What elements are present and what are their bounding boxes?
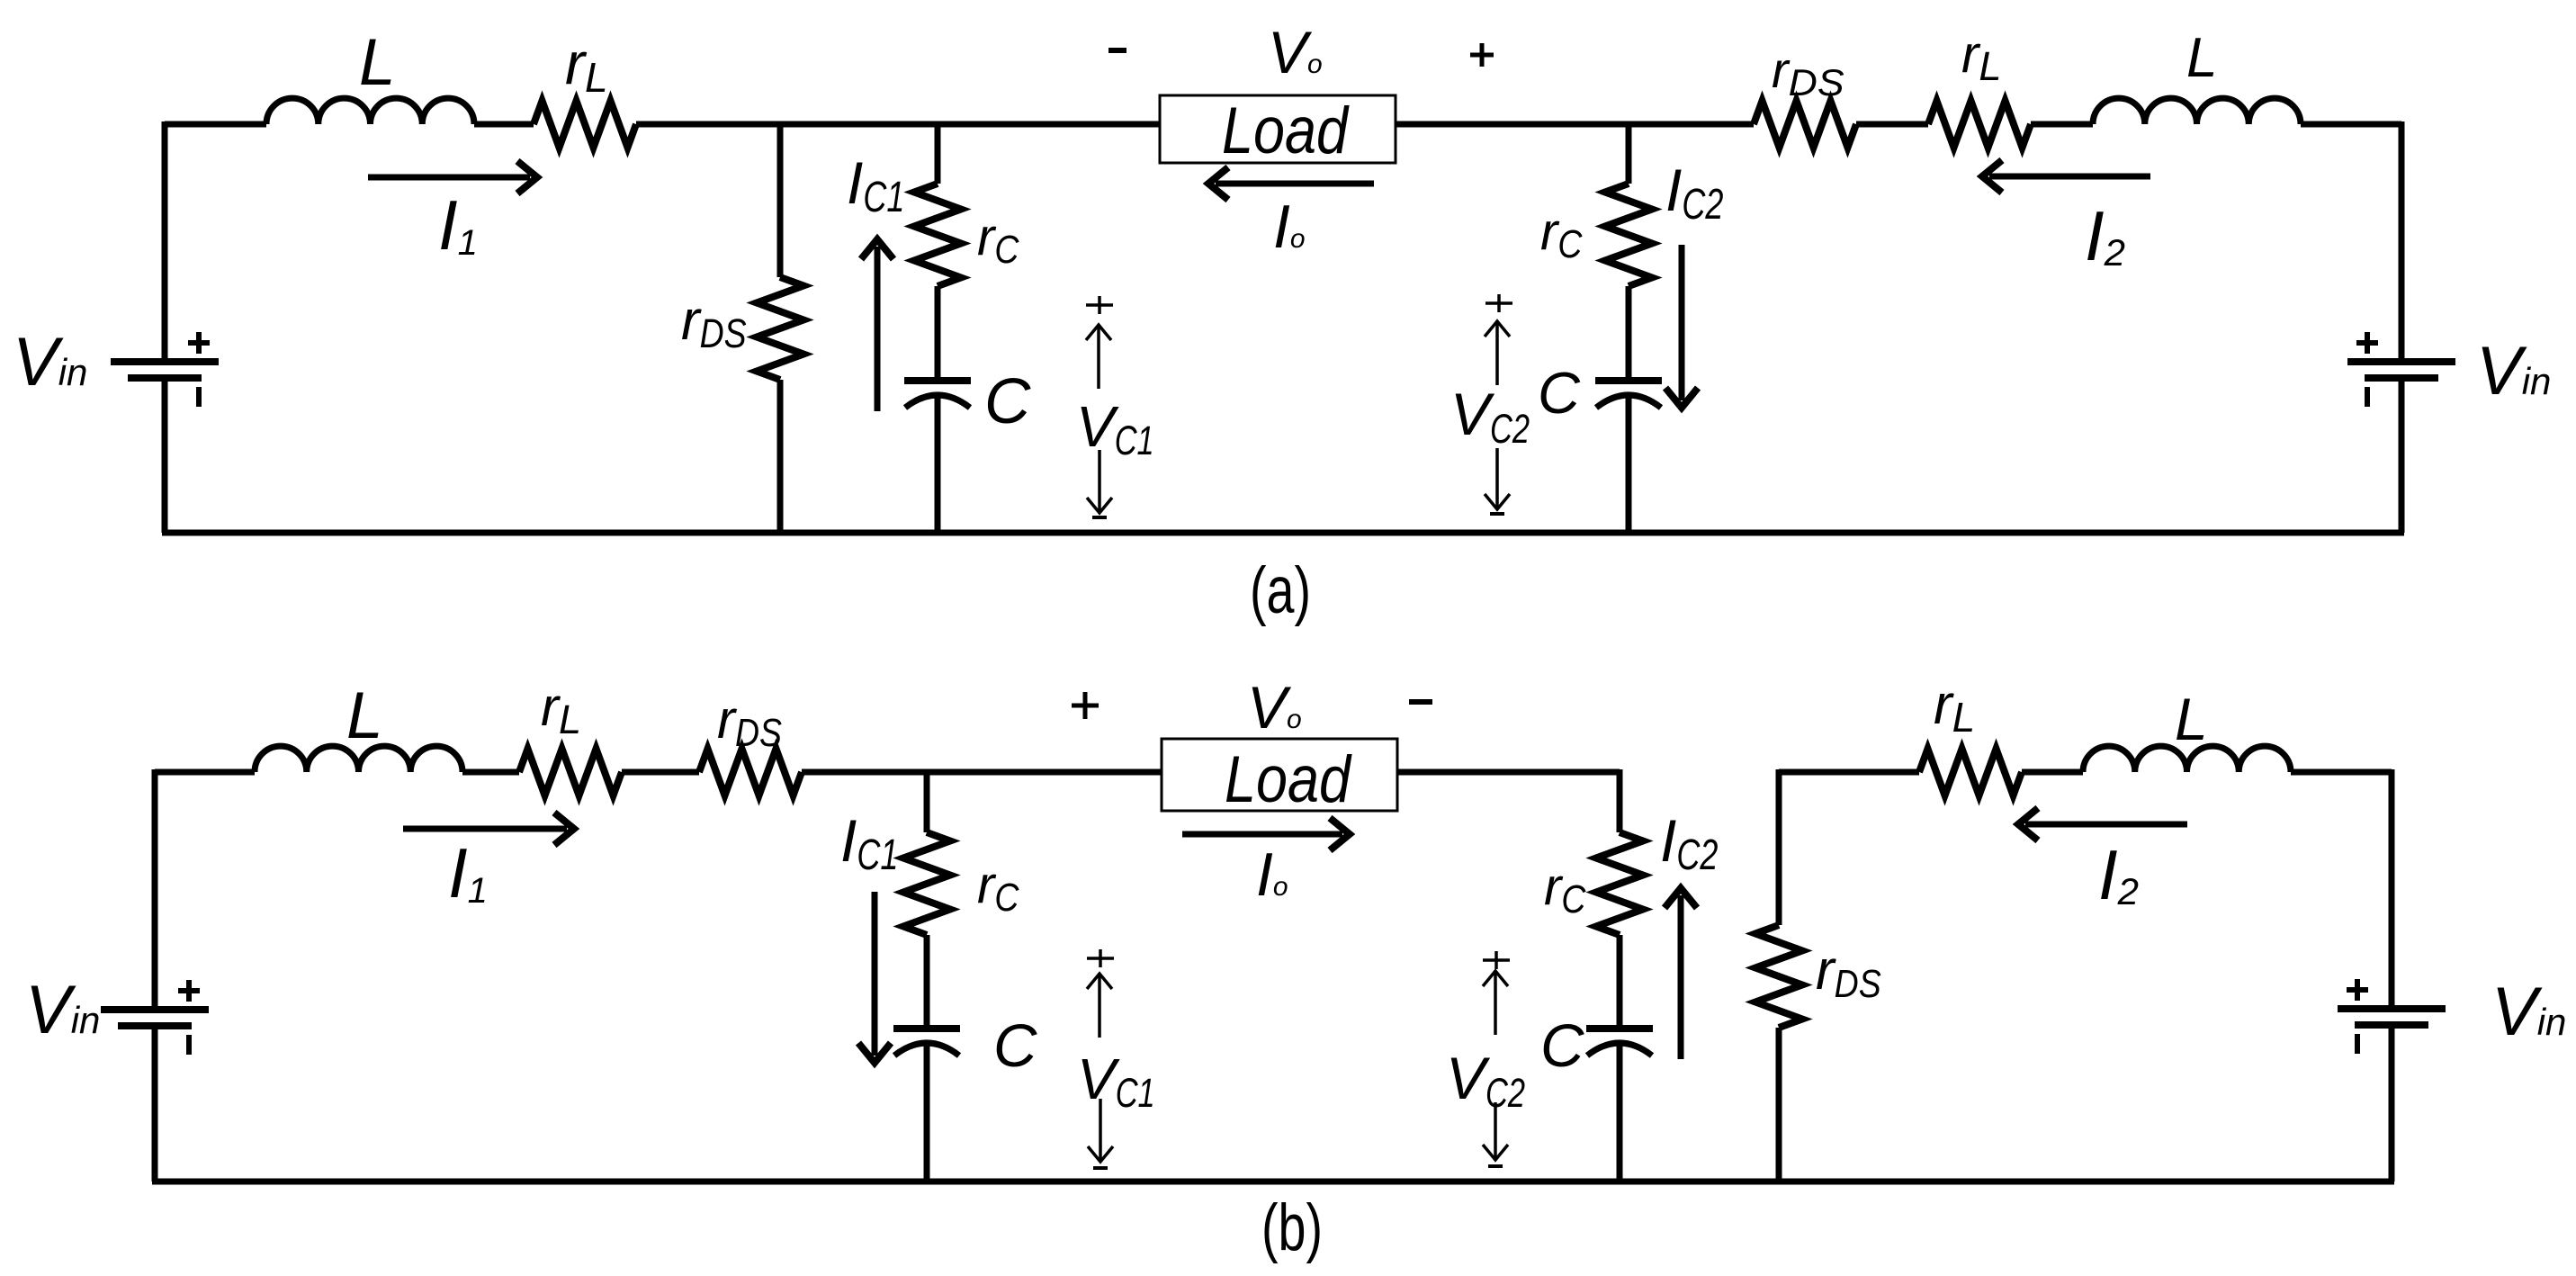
svg-text:rL: rL: [565, 30, 608, 101]
svg-text:L: L: [359, 26, 396, 99]
svg-text:IC2: IC2: [1665, 157, 1723, 229]
svg-text:rL: rL: [1934, 674, 1975, 741]
svg-text:I1: I1: [438, 185, 478, 265]
svg-text:IC1: IC1: [847, 149, 904, 221]
svg-text:rC: rC: [1544, 858, 1586, 921]
svg-text:C: C: [1540, 1012, 1584, 1080]
svg-text:rL: rL: [541, 677, 581, 742]
svg-text:rC: rC: [977, 208, 1019, 272]
svg-text:Vin: Vin: [25, 972, 100, 1048]
svg-text:L: L: [346, 679, 383, 752]
svg-text:L: L: [2175, 686, 2208, 752]
svg-text:VC1: VC1: [1076, 394, 1154, 463]
svg-text:IC1: IC1: [840, 807, 898, 879]
svg-text:rDS: rDS: [681, 290, 747, 356]
svg-text:Load: Load: [1222, 94, 1350, 167]
svg-text:VC1: VC1: [1077, 1047, 1155, 1116]
svg-text:I2: I2: [2098, 835, 2139, 914]
svg-text:C: C: [993, 1012, 1037, 1080]
svg-text:VC2: VC2: [1446, 1045, 1525, 1116]
svg-text:(a): (a): [1250, 554, 1311, 627]
svg-text:rC: rC: [1540, 202, 1583, 266]
svg-text:VC2: VC2: [1450, 381, 1530, 452]
svg-text:C: C: [984, 366, 1031, 437]
svg-text:I2: I2: [2085, 196, 2125, 275]
svg-text:Vo: Vo: [1247, 674, 1302, 741]
svg-text:Vin: Vin: [13, 324, 87, 400]
svg-text:rL: rL: [1961, 25, 2001, 89]
svg-text:L: L: [2186, 27, 2217, 89]
svg-text:Vin: Vin: [2476, 333, 2551, 409]
svg-text:rDS: rDS: [717, 689, 782, 755]
svg-text:Io: Io: [1273, 193, 1306, 261]
svg-text:rDS: rDS: [1772, 41, 1844, 103]
svg-text:rDS: rDS: [1816, 939, 1881, 1006]
svg-text:Io: Io: [1256, 840, 1288, 909]
svg-text:(b): (b): [1261, 1191, 1323, 1264]
svg-text:rC: rC: [977, 856, 1019, 920]
svg-text:Load: Load: [1225, 743, 1352, 816]
svg-text:IC2: IC2: [1660, 807, 1718, 879]
svg-text:Vin: Vin: [2491, 974, 2566, 1050]
svg-text:I1: I1: [448, 833, 488, 912]
svg-text:Vo: Vo: [1268, 19, 1323, 85]
svg-text:C: C: [1538, 360, 1581, 426]
